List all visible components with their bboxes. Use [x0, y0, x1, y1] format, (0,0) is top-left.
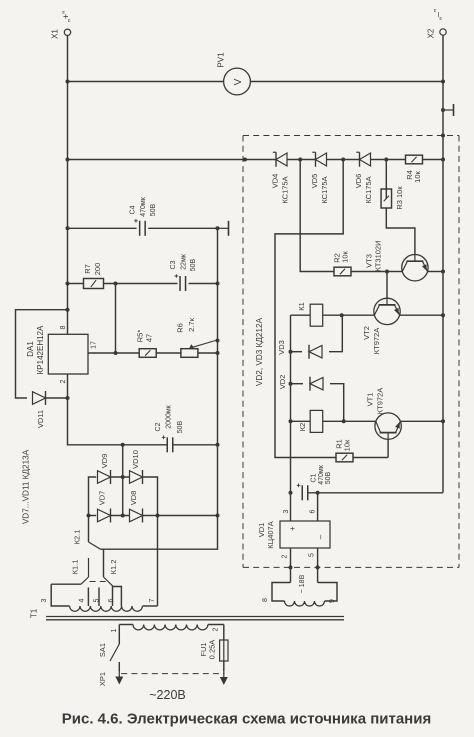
dashed box right edge — [458, 136, 460, 568]
capacitor C4 — [134, 219, 145, 236]
svg-text:2000мк: 2000мк — [165, 404, 172, 428]
svg-text:КС175А: КС175А — [281, 176, 290, 203]
node rail / VT1 emitter — [441, 419, 445, 423]
node mid rail / VD8 row — [216, 514, 220, 518]
wire tap3 corner — [51, 584, 69, 606]
wire VD1 pin6 — [317, 493, 319, 521]
svg-text:C1: C1 — [310, 473, 317, 482]
wire VD10 right lead — [143, 477, 158, 516]
svg-text:5: 5 — [93, 598, 100, 602]
node VD5-VD6 — [341, 158, 345, 162]
svg-text:КС175А: КС175А — [320, 176, 329, 203]
wire R5 to R6 — [156, 352, 181, 354]
contact K1.1 stub — [88, 558, 90, 577]
node C1 right — [316, 491, 320, 495]
wire VD1 pin5 — [317, 548, 319, 583]
trimmer R6 wiper arrow — [189, 341, 216, 349]
svg-text:V: V — [233, 78, 244, 85]
node zener row enters box — [243, 158, 247, 162]
wire VD9-VD7 column — [122, 477, 124, 516]
wire right rail — [442, 35, 444, 493]
node C2 row / bridge column — [121, 443, 125, 447]
capacitor C1 — [297, 484, 308, 501]
node mid rail / R6 — [216, 351, 220, 355]
zener VD5 — [312, 152, 326, 167]
voltmeter PV1 — [224, 68, 251, 95]
svg-text:1: 1 — [111, 628, 118, 632]
node VD7-VD8 — [121, 514, 125, 518]
svg-text:КТ972А: КТ972А — [372, 328, 381, 354]
node K1 / VT2 collector — [340, 313, 344, 317]
svg-text:VD4: VD4 — [271, 174, 280, 189]
wire VD6 to R4 — [371, 159, 406, 161]
resistor R4 — [406, 155, 423, 164]
svg-text:„–”: „–” — [433, 9, 443, 20]
svg-text:470мк: 470мк — [140, 196, 147, 216]
svg-text:7: 7 — [149, 598, 156, 602]
terminal X1 — [64, 29, 70, 35]
svg-text:47: 47 — [145, 334, 154, 342]
node VD9-VD10 — [121, 475, 125, 479]
resistor R5 — [139, 349, 156, 358]
svg-text:6: 6 — [108, 598, 115, 602]
zener VD4 — [273, 152, 287, 167]
node left rail / C4 — [66, 226, 70, 230]
wire VD9-VD10 link — [111, 476, 129, 478]
wire tap6 — [112, 586, 114, 607]
svg-text:VT2: VT2 — [362, 326, 371, 340]
svg-text:PV1: PV1 — [216, 52, 225, 68]
svg-text:C2: C2 — [155, 422, 162, 431]
wire K1 node to VT2 collector — [342, 314, 375, 316]
svg-text:VD10: VD10 — [131, 450, 140, 469]
node inner rail / C1 — [289, 491, 293, 495]
winding T1 mains — [133, 625, 208, 630]
svg-text:VD9: VD9 — [100, 454, 109, 469]
wire SA1 top stub — [118, 625, 120, 645]
wire VD9 left lead — [89, 477, 97, 516]
wire SA1 bottom stub — [118, 662, 120, 671]
svg-text:C3: C3 — [170, 260, 177, 269]
svg-text:VD5: VD5 — [310, 174, 319, 189]
wire mains winding right lead — [208, 624, 224, 626]
switch SA1 blade — [110, 644, 119, 661]
svg-text:VD7: VD7 — [98, 491, 107, 506]
svg-text:2.7к: 2.7к — [187, 317, 196, 331]
svg-text:5: 5 — [308, 553, 315, 557]
svg-text:„+”: „+” — [61, 11, 71, 22]
diode VD8 — [130, 509, 143, 523]
wire C4 row left — [68, 227, 137, 229]
node right rail / PV1 row — [441, 80, 445, 84]
svg-text:10к: 10к — [343, 439, 352, 451]
wire VD7 left lead — [89, 515, 97, 517]
wire tap7 column — [157, 516, 159, 607]
node pin5 dashed crossing — [316, 565, 320, 569]
wire VD7-VD8 link — [111, 515, 129, 517]
wire secondary right lead — [318, 583, 337, 602]
node left rail / PV1 row — [66, 80, 70, 84]
transistor VT1 — [375, 413, 401, 439]
wire mid rail down to K2.1 row — [101, 445, 218, 549]
svg-text:8: 8 — [60, 325, 67, 329]
dashed box left edge — [242, 136, 244, 568]
svg-text:VD3: VD3 — [277, 340, 286, 355]
node K2 / VT1 collector — [342, 419, 346, 423]
wire C2 left — [123, 444, 168, 446]
svg-text:DA1: DA1 — [26, 341, 35, 357]
wire VD8 right lead — [143, 515, 158, 517]
node VD7 left — [87, 514, 91, 518]
resistor R2 — [334, 267, 351, 276]
svg-text:0.25А: 0.25А — [208, 640, 217, 660]
diode VD11 — [33, 391, 46, 405]
node inner rail / VD3 — [289, 350, 293, 354]
node left rail / R7 — [66, 282, 70, 286]
wire tap5 — [98, 588, 100, 607]
dashed box bottom edge — [243, 566, 459, 568]
wire inner rail top to K1 — [291, 314, 311, 316]
diode VD9 — [98, 470, 111, 484]
bridge rectifier VD1 — [280, 521, 330, 548]
wire K1 to node — [323, 314, 342, 316]
wire VD3 to K1 node — [329, 315, 342, 352]
node mid rail / C2 — [216, 443, 220, 447]
svg-text:К2: К2 — [298, 423, 307, 432]
transformer T1 core — [46, 617, 344, 620]
wire VD4-VD5 node down to R2 — [300, 160, 334, 272]
svg-text:~220В: ~220В — [149, 688, 186, 702]
svg-text:К2.1: К2.1 — [73, 530, 82, 545]
wire R7 to C3 — [104, 283, 178, 285]
svg-text:R5*: R5* — [136, 330, 145, 343]
svg-text:~ 18В: ~ 18В — [299, 574, 306, 593]
wire VD6 node down to R3 — [385, 160, 387, 199]
svg-text:VT1: VT1 — [366, 393, 375, 407]
svg-text:8: 8 — [262, 598, 269, 602]
svg-text:VT3: VT3 — [365, 254, 374, 268]
wire C2 node to VD9 row — [122, 445, 124, 477]
resistor R3 — [381, 189, 392, 208]
wire tap bus — [51, 583, 81, 585]
resistor R6 body — [181, 349, 198, 358]
svg-text:9: 9 — [329, 599, 336, 603]
wire K2 node to VT1 collector — [344, 420, 376, 422]
svg-text:Т1: Т1 — [29, 608, 38, 618]
node inner rail / K2 — [289, 419, 293, 423]
svg-text:КС175А: КС175А — [364, 176, 373, 203]
relay coil K2 — [310, 410, 323, 432]
wire PV1 row right — [250, 81, 443, 83]
svg-text:SA1: SA1 — [98, 643, 107, 657]
svg-text:50В: 50В — [177, 420, 184, 433]
svg-text:3: 3 — [41, 598, 48, 602]
svg-text:10к: 10к — [341, 250, 350, 262]
node mid rail / C4 — [216, 226, 220, 230]
node mid rail / C3 — [216, 282, 220, 286]
svg-text:X1: X1 — [50, 29, 59, 39]
wire zener row — [68, 159, 277, 161]
node rail / VT2 emitter — [441, 313, 445, 317]
node VT3 collector / VT2 base — [385, 270, 389, 274]
svg-text:КТ3102И: КТ3102И — [373, 240, 382, 271]
svg-text:200: 200 — [93, 263, 102, 276]
node X2 rail stub — [441, 108, 445, 112]
diode VD7 — [98, 509, 111, 523]
node VD8 / tap7 column — [156, 514, 160, 518]
node rail / zener row — [441, 158, 445, 162]
wire R7-R5 vertical — [115, 284, 117, 354]
wire R3 to VT3 base — [386, 208, 415, 255]
svg-text:R6: R6 — [176, 323, 185, 333]
transistor VT2 — [374, 298, 400, 324]
wire PV1 row left — [68, 81, 224, 83]
wire FU1 bottom lead — [223, 661, 225, 671]
svg-text:К1.2: К1.2 — [109, 560, 118, 575]
wire R2 to VT3 base node — [351, 271, 387, 273]
winding T1 secondary 18V — [285, 601, 325, 606]
node R5 row / R7 branch — [114, 351, 118, 355]
svg-text:+: + — [288, 526, 297, 531]
wire VT3 emitter to rail — [428, 271, 444, 273]
dashed link K1.1-K1.2 — [90, 581, 107, 583]
wire VD1 pin3 — [290, 493, 292, 521]
wire C2 right — [173, 444, 218, 446]
wire K1.2 output to winding — [113, 587, 122, 607]
svg-text:Рис. 4.6. Электрическая схема: Рис. 4.6. Электрическая схема источника … — [62, 710, 431, 727]
svg-text:VD11: VD11 — [36, 410, 45, 428]
wire tap4 — [87, 588, 89, 607]
capacitor C3 — [175, 274, 186, 291]
svg-text:2: 2 — [212, 627, 219, 631]
svg-text:10к: 10к — [413, 170, 422, 182]
wire C1 to rail corner — [308, 492, 443, 494]
wire K2.1 to K1.2 stub — [103, 549, 105, 577]
node mid rail / R6 wiper — [216, 339, 220, 343]
resistor R7 — [84, 279, 104, 289]
wire K2 left — [291, 420, 311, 422]
plug pin XP1 right arrow — [220, 669, 228, 685]
svg-text:17: 17 — [90, 341, 97, 349]
wire VD2 left — [291, 383, 304, 385]
svg-text:КР142ЕН12А: КР142ЕН12А — [36, 325, 45, 374]
node R7-C3 / R5 branch — [114, 282, 118, 286]
wire VT1 emitter to rail — [401, 420, 443, 422]
regulator DA1 — [48, 334, 88, 374]
chassis stub at X2 rail — [443, 104, 454, 116]
plug pin XP1 left arrow — [115, 669, 123, 685]
wire left rail to C2 row — [68, 398, 123, 445]
svg-text:VD8: VD8 — [129, 491, 138, 506]
wire left rail top — [67, 36, 69, 335]
diode VD10 — [130, 470, 143, 484]
svg-text:VD7...VD11 КД213А: VD7...VD11 КД213А — [21, 449, 30, 524]
svg-text:–: – — [316, 534, 325, 539]
wire VD4 to VD5 — [287, 159, 316, 161]
svg-text:КТ972А: КТ972А — [376, 388, 385, 414]
svg-text:2: 2 — [60, 379, 67, 383]
chassis stub at C4 — [218, 221, 229, 236]
wire DA1 pin17 to R5 — [88, 352, 139, 354]
wire inner rail K2-C1 — [290, 421, 292, 493]
relay coil K1 — [310, 304, 323, 326]
wire R4 to rail — [423, 159, 444, 161]
zener VD6 — [356, 152, 370, 167]
svg-text:К1.1: К1.1 — [71, 560, 80, 575]
transistor VT3 — [402, 255, 428, 281]
node rail / VT3 emitter — [441, 270, 445, 274]
wire R6 to mid rail — [198, 352, 218, 354]
fuse FU1 — [220, 640, 228, 661]
wire VD3 left — [291, 351, 303, 353]
svg-text:50В: 50В — [150, 203, 157, 216]
wire VD1 pin2 — [290, 548, 292, 583]
node VD6-R3 — [384, 158, 388, 162]
svg-text:C4: C4 — [129, 205, 136, 214]
wire FU1 top lead — [223, 625, 225, 641]
svg-text:X2: X2 — [426, 28, 435, 38]
wire bypass loop left — [16, 310, 68, 398]
wire VT2 emitter to rail — [400, 314, 443, 316]
contact K1.2 blade — [104, 577, 113, 586]
svg-text:6: 6 — [309, 509, 316, 513]
svg-text:XP1: XP1 — [98, 672, 107, 686]
wire VT1 base down — [387, 439, 389, 457]
svg-text:VD2: VD2 — [278, 375, 287, 390]
svg-text:VD2, VD3 КД212А: VD2, VD3 КД212А — [255, 317, 264, 386]
wire left rail DA1 to VD11 node — [67, 374, 69, 398]
wire C4 row right — [148, 227, 217, 229]
wire inner rail VD3-VD2 — [290, 352, 292, 384]
dashed plug boundary — [121, 673, 224, 675]
svg-text:R7: R7 — [83, 264, 92, 274]
contact K1.1 blade — [81, 577, 89, 584]
terminal X2 — [440, 29, 446, 35]
wire VD5 to VD6 — [327, 159, 360, 161]
svg-text:4: 4 — [78, 598, 85, 602]
wire inner rail K1-VD3 — [290, 315, 292, 352]
wire inner rail VD2-K2 — [290, 384, 292, 422]
svg-text:КЦ407А: КЦ407А — [266, 521, 275, 548]
resistor R1 — [336, 453, 353, 462]
svg-text:470мк: 470мк — [318, 464, 325, 484]
svg-text:R3 10к: R3 10к — [395, 186, 404, 210]
node pin2 dashed crossing — [289, 565, 293, 569]
svg-text:VD6: VD6 — [354, 174, 363, 189]
diode VD3 — [309, 345, 322, 359]
wire mid rail — [217, 228, 219, 444]
winding T1 primary taps — [70, 606, 143, 611]
svg-text:VD1: VD1 — [257, 523, 266, 538]
svg-text:22мк: 22мк — [180, 253, 187, 270]
wire VD7 node down to K2.1 — [88, 516, 90, 543]
svg-text:2: 2 — [281, 554, 288, 558]
node rail crosses dashed top — [441, 134, 445, 138]
node left rail / bypass — [66, 308, 70, 312]
wire VT2 base up to node — [386, 272, 388, 299]
wire winding right segment — [142, 605, 157, 607]
wire R7 row left — [68, 283, 84, 285]
capacitor C2 — [162, 436, 173, 453]
wire VT3 collector wire — [387, 271, 402, 273]
wire R1 to VT1 base — [353, 457, 388, 459]
wire K2 to node — [323, 420, 344, 422]
diode VD2 — [310, 377, 323, 391]
dashed box top edge — [243, 135, 459, 137]
wire secondary left lead — [272, 583, 291, 602]
node inner rail / VD2 — [289, 382, 293, 386]
wire VD11 to rail — [46, 397, 68, 399]
node left rail / VD11 — [66, 396, 70, 400]
node left rail / zener row — [66, 158, 70, 162]
svg-text:К1: К1 — [297, 302, 306, 311]
wire VD8 row to mid rail — [158, 515, 218, 517]
wire C3 to mid rail — [189, 283, 218, 285]
svg-text:50В: 50В — [190, 258, 197, 271]
contact K2.1 blade — [89, 542, 101, 549]
wire VD5-VD6 node to R1 — [275, 160, 343, 458]
svg-text:50В: 50В — [325, 471, 332, 484]
wire VD2 to K2 node — [330, 384, 344, 422]
svg-text:3: 3 — [283, 509, 290, 513]
node VD4-VD5 — [298, 158, 302, 162]
wire mains winding left lead — [119, 624, 133, 626]
